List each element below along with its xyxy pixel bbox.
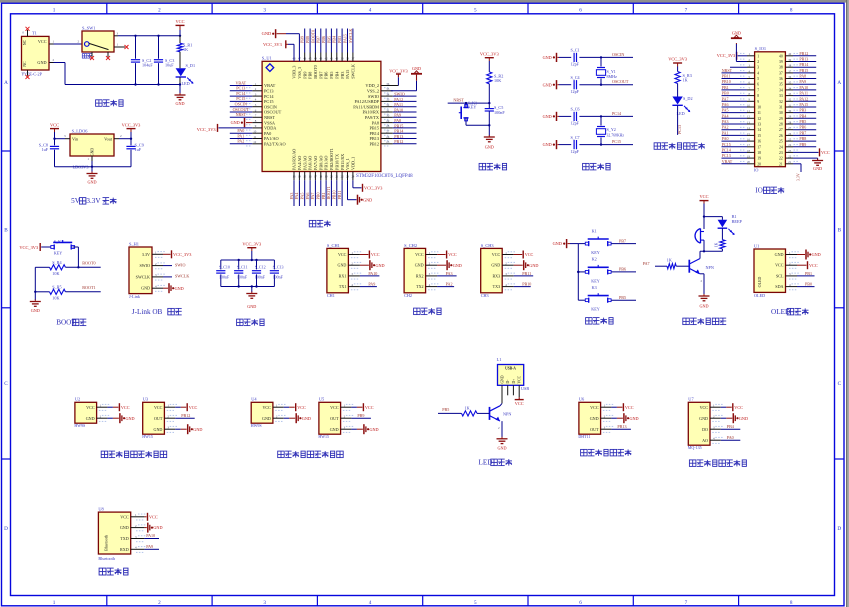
svg-text:VCC: VCC: [518, 375, 522, 383]
svg-text:10K: 10K: [52, 271, 59, 276]
svg-text:OUT: OUT: [330, 416, 339, 421]
svg-text:12: 12: [757, 117, 761, 121]
svg-text:11: 11: [253, 135, 256, 139]
svg-text:GND: GND: [86, 416, 95, 421]
svg-text:KEY: KEY: [591, 278, 600, 283]
svg-text:1: 1: [53, 7, 56, 13]
svg-text:PA10: PA10: [146, 533, 155, 538]
svg-text:K1: K1: [592, 228, 597, 233]
svg-text:PA10/RX: PA10/RX: [362, 110, 379, 115]
svg-text:10K: 10K: [52, 296, 59, 301]
svg-text:PB9: PB9: [799, 142, 806, 147]
svg-text:PB3: PB3: [340, 72, 345, 79]
svg-text:PB7: PB7: [318, 72, 323, 79]
svg-text:100nF: 100nF: [219, 275, 230, 280]
svg-text:8: 8: [790, 7, 793, 13]
svg-text:PB14: PB14: [369, 131, 379, 136]
svg-text:4: 4: [369, 600, 372, 606]
svg-text:10: 10: [253, 130, 257, 134]
svg-text:11: 11: [757, 111, 761, 115]
svg-text:31: 31: [386, 108, 390, 112]
svg-text:18: 18: [757, 151, 761, 155]
svg-text:TX3: TX3: [493, 284, 501, 289]
svg-text:12pF: 12pF: [571, 89, 580, 94]
svg-text:NPN: NPN: [503, 411, 511, 416]
svg-text:22: 22: [779, 157, 783, 161]
svg-text:L1: L1: [497, 357, 502, 362]
svg-text:KEY: KEY: [468, 105, 477, 110]
svg-text:STM32F103C8T6_LQFP48: STM32F103C8T6_LQFP48: [356, 174, 413, 179]
svg-text:GND: GND: [485, 145, 494, 150]
svg-text:19: 19: [757, 157, 761, 161]
svg-text:VCC: VCC: [365, 405, 374, 410]
svg-text:PA2/TX/AO: PA2/TX/AO: [264, 142, 286, 147]
svg-text:PC15: PC15: [236, 96, 245, 101]
svg-text:S_C12: S_C12: [255, 264, 266, 269]
svg-text:3.3V: 3.3V: [797, 173, 801, 181]
svg-text:IO: IO: [754, 167, 758, 172]
svg-text:VCC: VCC: [525, 252, 534, 257]
svg-text:PA7: PA7: [722, 96, 729, 101]
svg-text:GND: GND: [543, 55, 552, 60]
svg-text:KEY: KEY: [54, 251, 63, 256]
svg-text:OLED: OLED: [754, 293, 765, 298]
svg-text:VCC: VCC: [86, 405, 95, 410]
svg-text:PA2: PA2: [722, 125, 729, 130]
svg-text:33: 33: [779, 94, 783, 98]
svg-text:PA5: PA5: [300, 193, 305, 200]
svg-text:32.768KHz: 32.768KHz: [607, 134, 625, 138]
svg-text:PC14: PC14: [264, 94, 274, 99]
svg-text:3.3V: 3.3V: [142, 252, 150, 257]
svg-text:PB12: PB12: [799, 51, 808, 56]
svg-text:4: 4: [369, 7, 372, 13]
svg-text:PA6/AO: PA6/AO: [308, 156, 313, 170]
svg-text:32: 32: [386, 103, 390, 107]
svg-text:S_R4: S_R4: [52, 260, 62, 265]
svg-text:40: 40: [779, 54, 783, 58]
svg-text:PC15: PC15: [722, 142, 731, 147]
svg-text:VCC_3V3: VCC_3V3: [19, 245, 39, 250]
svg-text:34: 34: [386, 92, 390, 96]
svg-text:PB0/AO: PB0/AO: [318, 156, 323, 170]
svg-text:GND: GND: [699, 416, 708, 421]
svg-text:J-Link: J-Link: [129, 294, 141, 299]
svg-text:RXD: RXD: [120, 547, 129, 552]
svg-text:PA0: PA0: [264, 131, 271, 136]
svg-text:S_CH2: S_CH2: [404, 243, 417, 248]
svg-text:21: 21: [779, 162, 783, 166]
svg-text:7: 7: [685, 600, 688, 606]
svg-text:26: 26: [779, 134, 783, 138]
svg-text:VCC: VCC: [154, 405, 163, 410]
svg-text:OSCIN: OSCIN: [235, 102, 247, 107]
svg-text:PA3: PA3: [722, 119, 729, 124]
svg-text:HW9S: HW9S: [74, 423, 85, 428]
svg-text:VCC: VCC: [120, 514, 129, 519]
svg-text:PB15: PB15: [394, 123, 403, 128]
svg-text:GND: GND: [175, 101, 184, 106]
svg-text:PA9/TX: PA9/TX: [365, 115, 380, 120]
svg-text:MQ-135: MQ-135: [688, 445, 702, 450]
svg-text:OUT: OUT: [154, 416, 163, 421]
svg-text:GND: GND: [247, 304, 256, 309]
svg-text:100nF: 100nF: [237, 275, 248, 280]
svg-text:GND: GND: [630, 416, 639, 421]
svg-text:23: 23: [779, 151, 783, 155]
svg-text:GND: GND: [739, 416, 748, 421]
svg-text:PB4: PB4: [799, 113, 806, 118]
svg-text:VCC: VCC: [415, 252, 424, 257]
svg-text:DO: DO: [702, 427, 708, 432]
svg-text:NC: NC: [23, 39, 27, 45]
svg-text:RX1: RX1: [339, 273, 347, 278]
svg-text:BOOT0: BOOT0: [82, 261, 95, 266]
svg-text:PC14: PC14: [612, 111, 621, 116]
svg-text:KEY: KEY: [591, 307, 600, 312]
svg-text:PB8: PB8: [308, 72, 313, 79]
svg-text:PA8: PA8: [394, 118, 401, 123]
svg-text:2: 2: [158, 7, 161, 13]
svg-text:GND: GND: [497, 445, 506, 450]
svg-text:S_R5: S_R5: [52, 285, 61, 290]
svg-text:31: 31: [779, 106, 783, 110]
svg-text:GND: GND: [370, 427, 379, 432]
svg-text:GND: GND: [491, 263, 500, 268]
svg-text:VCC: VCC: [625, 405, 634, 410]
svg-text:29: 29: [779, 117, 783, 121]
svg-text:VCC_3V3: VCC_3V3: [122, 122, 142, 127]
svg-text:PB0: PB0: [316, 192, 321, 199]
svg-text:PB10/TX: PB10/TX: [334, 154, 339, 170]
svg-text:GND: GND: [262, 31, 272, 36]
svg-text:VCC_3V3: VCC_3V3: [480, 51, 500, 56]
svg-text:PC13: PC13: [722, 153, 731, 158]
svg-text:PB13: PB13: [369, 136, 379, 141]
svg-text:PA11/USBDM: PA11/USBDM: [353, 104, 379, 109]
svg-text:GND: GND: [415, 263, 424, 268]
svg-text:GND: GND: [543, 82, 552, 87]
svg-text:1uF: 1uF: [135, 147, 142, 152]
svg-text:PC14: PC14: [236, 91, 245, 96]
svg-text:U4: U4: [251, 397, 257, 402]
svg-text:TYPE-C-2P: TYPE-C-2P: [22, 71, 43, 76]
svg-text:SDA: SDA: [775, 284, 783, 289]
svg-text:37: 37: [779, 71, 783, 75]
svg-text:PA8: PA8: [372, 120, 379, 125]
svg-text:8: 8: [757, 94, 759, 98]
svg-text:D+: D+: [512, 379, 516, 384]
svg-text:PA4: PA4: [722, 113, 729, 118]
svg-text:30: 30: [779, 111, 783, 115]
svg-text:27: 27: [779, 128, 783, 132]
svg-text:13: 13: [757, 123, 761, 127]
svg-text:104uF: 104uF: [142, 62, 153, 67]
svg-text:OUT: OUT: [590, 427, 599, 432]
svg-text:PA15: PA15: [342, 34, 347, 43]
svg-text:GND: GND: [154, 427, 163, 432]
svg-text:SWCLK: SWCLK: [136, 274, 150, 279]
svg-text:PB14: PB14: [394, 129, 403, 134]
svg-text:27: 27: [386, 130, 390, 134]
svg-text:VCC_3V3: VCC_3V3: [197, 127, 217, 132]
svg-text:S_C4: S_C4: [571, 75, 580, 80]
svg-text:PB13: PB13: [617, 424, 626, 429]
svg-text:NRST: NRST: [453, 98, 464, 103]
svg-text:PA11: PA11: [394, 102, 403, 107]
svg-text:35: 35: [386, 87, 390, 91]
svg-text:25: 25: [779, 140, 783, 144]
svg-text:28: 28: [779, 123, 783, 127]
svg-text:1: 1: [53, 600, 56, 606]
svg-text:39: 39: [779, 60, 783, 64]
svg-text:33: 33: [386, 98, 390, 102]
svg-text:VCC_3V3: VCC_3V3: [364, 185, 382, 190]
svg-text:KEY: KEY: [591, 250, 600, 255]
svg-text:NRST: NRST: [236, 112, 247, 117]
svg-text:32: 32: [779, 100, 783, 104]
svg-text:25: 25: [386, 140, 390, 144]
svg-text:VCC_3V3: VCC_3V3: [389, 68, 407, 73]
svg-text:4: 4: [757, 71, 759, 75]
svg-text:PB0: PB0: [805, 282, 812, 287]
svg-text:GND: GND: [553, 241, 562, 246]
svg-text:PB12: PB12: [181, 413, 190, 418]
svg-text:100nF: 100nF: [494, 110, 505, 115]
svg-text:16: 16: [757, 140, 761, 144]
svg-text:GND: GND: [453, 263, 462, 268]
svg-text:PA0: PA0: [237, 128, 244, 133]
svg-text:PB9: PB9: [357, 413, 364, 418]
svg-text:5: 5: [757, 77, 759, 81]
svg-text:OSCIN: OSCIN: [264, 104, 277, 109]
svg-text:PB12: PB12: [369, 142, 379, 147]
svg-text:PB1: PB1: [805, 271, 812, 276]
svg-text:10uF: 10uF: [165, 62, 174, 67]
svg-text:USB: USB: [521, 386, 529, 391]
svg-text:PA0: PA0: [727, 435, 734, 440]
svg-text:12: 12: [253, 140, 257, 144]
svg-text:PB6: PB6: [324, 72, 329, 79]
svg-text:PB8: PB8: [799, 136, 806, 141]
svg-text:VSSA: VSSA: [264, 120, 276, 125]
svg-text:VCC: VCC: [699, 194, 708, 199]
svg-text:1uF: 1uF: [41, 147, 48, 152]
svg-text:VCC: VCC: [297, 405, 306, 410]
svg-text:OSCOUT: OSCOUT: [264, 110, 282, 115]
svg-text:24: 24: [779, 145, 783, 149]
svg-text:GND: GND: [363, 197, 372, 202]
svg-text:GND: GND: [87, 179, 96, 184]
svg-text:VCC: VCC: [38, 39, 47, 44]
svg-text:26: 26: [386, 135, 390, 139]
svg-text:BOOT1: BOOT1: [326, 186, 331, 199]
svg-text:PB4: PB4: [334, 71, 339, 79]
svg-text:VSS_3: VSS_3: [297, 67, 302, 79]
svg-text:PB10: PB10: [722, 79, 731, 84]
svg-text:B: B: [4, 228, 8, 234]
svg-text:3.3V: 3.3V: [86, 197, 101, 205]
svg-text:TX2: TX2: [416, 284, 424, 289]
svg-text:3: 3: [263, 600, 266, 606]
svg-text:PA10: PA10: [799, 85, 808, 90]
svg-text:5: 5: [474, 7, 477, 13]
svg-text:VCC: VCC: [121, 405, 130, 410]
svg-text:GND: GND: [231, 120, 240, 125]
svg-text:SWIO: SWIO: [394, 92, 405, 97]
svg-text:VBAT: VBAT: [264, 83, 276, 88]
svg-text:K3: K3: [592, 285, 597, 290]
svg-text:PB3: PB3: [337, 36, 342, 43]
svg-text:HW9S: HW9S: [251, 423, 262, 428]
svg-text:PB10: PB10: [522, 282, 531, 287]
svg-text:PB4: PB4: [727, 424, 734, 429]
svg-text:2: 2: [757, 60, 759, 64]
svg-text:VCC: VCC: [700, 405, 709, 410]
svg-text:S_D1: S_D1: [186, 63, 196, 68]
svg-text:S_Y2: S_Y2: [607, 127, 616, 132]
svg-text:PB15: PB15: [799, 68, 808, 73]
svg-text:D: D: [837, 526, 841, 532]
svg-text:GND: GND: [500, 375, 504, 383]
svg-text:2: 2: [158, 600, 161, 606]
svg-text:PA0: PA0: [722, 136, 729, 141]
svg-text:S_C10: S_C10: [219, 264, 230, 269]
svg-text:PC14: PC14: [722, 147, 731, 152]
svg-text:VCC: VCC: [809, 263, 818, 268]
svg-text:HW15: HW15: [318, 434, 329, 439]
svg-text:PB11: PB11: [522, 271, 531, 276]
svg-text:PB0: PB0: [722, 91, 729, 96]
svg-text:6: 6: [579, 7, 582, 13]
svg-text:K2: K2: [592, 257, 597, 262]
svg-text:BOOT0: BOOT0: [313, 65, 318, 79]
svg-text:S_H1: S_H1: [129, 242, 139, 247]
svg-text:PB9: PB9: [300, 36, 305, 43]
svg-text:1K: 1K: [667, 257, 672, 262]
svg-text:GND: GND: [31, 308, 40, 313]
svg-text:GND: GND: [338, 263, 347, 268]
svg-text:6: 6: [579, 600, 582, 606]
svg-text:OSCOUT: OSCOUT: [612, 79, 629, 84]
svg-text:VCC: VCC: [492, 252, 501, 257]
svg-text:PB1/AO: PB1/AO: [324, 156, 329, 170]
svg-text:VCC_3V3: VCC_3V3: [242, 241, 262, 246]
svg-text:GND: GND: [175, 286, 184, 291]
svg-text:PA9: PA9: [146, 544, 153, 549]
svg-text:PA11: PA11: [799, 91, 808, 96]
svg-text:CH1: CH1: [327, 293, 335, 298]
svg-text:VCC: VCC: [448, 252, 457, 257]
svg-text:PA15: PA15: [345, 70, 350, 79]
svg-text:PB5: PB5: [799, 119, 806, 124]
svg-text:3: 3: [757, 66, 759, 70]
svg-text:GND: GND: [91, 148, 95, 156]
svg-text:GND: GND: [376, 263, 385, 268]
svg-text:35: 35: [779, 83, 783, 87]
svg-text:30: 30: [386, 114, 390, 118]
svg-text:VCC_3V3: VCC_3V3: [668, 57, 688, 62]
svg-text:U1: U1: [754, 243, 759, 248]
svg-text:PA3: PA3: [446, 271, 453, 276]
svg-text:VCC: VCC: [175, 19, 184, 24]
svg-text:PA5: PA5: [722, 108, 729, 113]
svg-text:RX2: RX2: [416, 273, 424, 278]
svg-text:7: 7: [685, 7, 688, 13]
svg-text:12pF: 12pF: [571, 149, 580, 154]
svg-text:Vin: Vin: [72, 136, 79, 141]
svg-text:VCC_3V3: VCC_3V3: [173, 252, 191, 257]
svg-text:PA7: PA7: [643, 261, 650, 266]
svg-text:PB5: PB5: [442, 407, 449, 412]
svg-text:GND: GND: [812, 252, 821, 257]
svg-text:GND: GND: [775, 252, 784, 257]
svg-text:S_C6: S_C6: [571, 107, 580, 112]
svg-text:TXD: TXD: [120, 536, 128, 541]
svg-text:GND: GND: [330, 427, 339, 432]
svg-text:B: B: [838, 228, 842, 234]
svg-text:PA10: PA10: [394, 107, 403, 112]
svg-text:PB4: PB4: [332, 36, 337, 43]
svg-text:VDD_1: VDD_1: [351, 157, 356, 170]
svg-text:S_C11: S_C11: [237, 264, 248, 269]
svg-text:S_C7: S_C7: [571, 135, 580, 140]
svg-text:NPN: NPN: [706, 265, 714, 270]
svg-text:PA12: PA12: [394, 97, 403, 102]
svg-text:PB5: PB5: [329, 72, 334, 79]
svg-text:8MHz: 8MHz: [607, 74, 618, 79]
svg-text:PA2: PA2: [446, 282, 453, 287]
svg-text:LED: LED: [182, 81, 190, 86]
svg-text:RX3: RX3: [492, 273, 500, 278]
svg-text:PA1: PA1: [722, 130, 729, 135]
svg-text:S_IO1: S_IO1: [755, 46, 766, 51]
svg-text:SWCLK: SWCLK: [351, 64, 356, 79]
svg-text:IO: IO: [755, 187, 762, 195]
svg-text:100nF: 100nF: [255, 275, 266, 280]
svg-text:OLED: OLED: [757, 277, 762, 288]
svg-text:PB9: PB9: [302, 72, 307, 79]
svg-text:PA4: PA4: [294, 193, 299, 200]
svg-text:VBAT: VBAT: [722, 159, 733, 164]
svg-text:S_SW1: S_SW1: [82, 26, 95, 31]
svg-text:A: A: [837, 80, 841, 86]
svg-text:U6: U6: [579, 397, 585, 402]
svg-text:36: 36: [779, 77, 783, 81]
svg-text:S_C13: S_C13: [273, 264, 284, 269]
svg-text:PA1: PA1: [237, 133, 244, 138]
svg-text:20: 20: [757, 162, 761, 166]
svg-text:GND: GND: [543, 114, 552, 119]
svg-text:7: 7: [757, 88, 759, 92]
svg-text:PB6: PB6: [619, 267, 626, 272]
svg-text:VCC: VCC: [734, 405, 743, 410]
svg-text:PA6: PA6: [305, 193, 310, 200]
svg-text:SWCLK: SWCLK: [175, 274, 189, 279]
svg-text:GND: GND: [590, 416, 599, 421]
svg-text:3: 3: [263, 7, 266, 13]
svg-text:6: 6: [757, 83, 759, 87]
svg-text:PB11/RX: PB11/RX: [340, 154, 345, 170]
svg-text:GND: GND: [262, 416, 271, 421]
svg-text:14: 14: [757, 128, 761, 132]
svg-text:PB14: PB14: [799, 62, 808, 67]
svg-text:HW15: HW15: [142, 434, 153, 439]
svg-text:S_CH3: S_CH3: [481, 243, 495, 248]
svg-text:SWCLK: SWCLK: [348, 29, 353, 43]
svg-text:PA8: PA8: [799, 74, 806, 79]
svg-text:PB12: PB12: [394, 139, 403, 144]
